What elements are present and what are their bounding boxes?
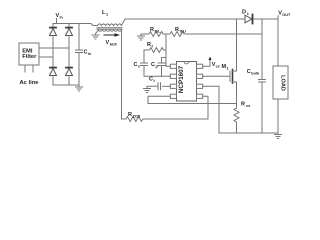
svg-text:ZCD: ZCD	[133, 115, 141, 119]
wire bridge bottom rail	[53, 84, 79, 86]
resistor RfbU	[170, 32, 262, 37]
inductor L1 core	[97, 28, 122, 30]
pin 8 VCC	[197, 64, 203, 68]
wire ZCD pin to RZCD	[203, 96, 208, 119]
pin 3 Ct	[170, 84, 176, 88]
pin 6 GND	[197, 84, 203, 88]
svg-text:LOAD: LOAD	[280, 75, 286, 91]
wire FB divider node to pin 1	[166, 34, 170, 66]
wire Vout rail to LOAD	[254, 19, 278, 66]
wire bridge output rail to L1	[53, 24, 93, 26]
pin 7 DRV	[197, 74, 203, 78]
svg-text:NCP1607: NCP1607	[178, 65, 185, 93]
svg-text:in: in	[60, 15, 64, 19]
diode bridge, top-right	[66, 24, 73, 49]
node VCC (supply arrow)	[203, 57, 212, 67]
svg-text:AUX: AUX	[110, 42, 118, 46]
svg-text:1: 1	[247, 12, 249, 16]
svg-text:C: C	[134, 62, 138, 68]
wire EMI Filter to bridge	[39, 48, 69, 57]
svg-text:1: 1	[106, 13, 108, 17]
ground (bridge negative)	[76, 85, 83, 91]
capacitor Cbulk	[259, 19, 266, 133]
svg-text:Filter: Filter	[22, 54, 37, 60]
node VAUX (arrow)	[104, 33, 120, 37]
IC U1 NCP1607 body	[177, 62, 197, 102]
svg-text:fbU: fbU	[180, 30, 187, 34]
svg-text:cc: cc	[216, 65, 220, 69]
svg-text:C: C	[84, 50, 88, 56]
capacitor Cp	[158, 58, 166, 77]
ground (aux winding)	[92, 35, 99, 39]
capacitor Cin	[76, 24, 83, 86]
svg-text:Ac line: Ac line	[20, 80, 40, 86]
svg-text:C: C	[247, 69, 251, 75]
wire AC input stubs	[25, 65, 33, 72]
svg-text:t: t	[154, 79, 156, 83]
wire CS pin to Rcs sense node	[148, 96, 237, 103]
resistor Rcs	[234, 104, 239, 134]
pin 2 Control	[170, 74, 176, 78]
svg-text:C: C	[151, 62, 155, 68]
EMI Filter block	[19, 43, 39, 65]
inductor L1 auxiliary winding	[96, 30, 122, 35]
resistor RfbL	[141, 32, 170, 37]
svg-text:R: R	[147, 42, 151, 48]
svg-text:OUT: OUT	[282, 13, 291, 17]
pin 4 CS	[170, 94, 176, 98]
svg-text:R: R	[241, 102, 245, 108]
wire GND pin to ground rail	[203, 86, 219, 133]
wire output ground rail	[219, 132, 278, 134]
capacitor Ct	[147, 83, 170, 90]
diode bridge, bottom-left	[50, 57, 57, 85]
svg-text:R: R	[150, 27, 154, 33]
diode bridge, bottom-right	[66, 48, 73, 85]
ground (output)	[275, 133, 282, 139]
pin 1 FB	[170, 64, 176, 68]
LOAD block	[273, 66, 288, 99]
svg-text:R: R	[128, 112, 132, 118]
wire LOAD to ground rail	[277, 99, 279, 133]
wire DRV to M1 gate	[203, 75, 230, 77]
node VOUT	[277, 16, 279, 19]
ground (feedback divider)	[138, 34, 145, 40]
svg-text:in: in	[88, 52, 92, 56]
svg-text:fbL: fbL	[155, 30, 162, 34]
wire aux winding to RZCD	[121, 30, 123, 119]
pin 5 ZCD	[197, 94, 203, 98]
svg-text:R: R	[175, 27, 179, 33]
diode bridge, top-left	[50, 24, 57, 58]
svg-text:D: D	[242, 10, 246, 16]
svg-text:1: 1	[227, 67, 229, 71]
inductor L1 (boost winding)	[93, 19, 245, 26]
ground (Ct)	[144, 89, 151, 93]
resistor RZCD	[122, 117, 208, 122]
node Vin	[56, 19, 58, 24]
svg-text:cs: cs	[246, 104, 250, 108]
capacitor Cc	[141, 50, 171, 76]
svg-text:bulk: bulk	[251, 72, 260, 76]
diode D1	[245, 15, 253, 24]
transistor M1 (MOSFET)	[230, 19, 237, 104]
svg-text:C: C	[149, 77, 153, 83]
svg-text:c: c	[138, 65, 140, 69]
svg-text:f: f	[152, 45, 154, 49]
resistor Rf	[144, 48, 166, 53]
